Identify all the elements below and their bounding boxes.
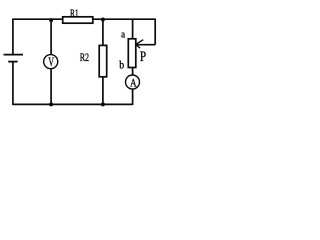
battery B1 short plate [8,61,17,63]
voltmeter V circle [44,55,58,69]
wire top right segment (R1 to top-right corner) [93,18,155,20]
wire bottom [13,103,133,105]
wire R2 to bottom junction [102,77,104,105]
svg-text:b: b [119,60,124,72]
rheostat P box [128,39,136,68]
wire R2 drop (top junction to R2) [102,19,104,45]
wire ammeter to bottom wire [132,90,134,106]
junction dot bottom R2 node [101,102,105,106]
svg-text:P: P [140,49,146,65]
resistor R2 box [99,45,107,76]
wire wiper shaft [136,44,155,46]
wire rheostat top drop [132,19,134,39]
wiper arrowhead lower barb [136,44,140,48]
wire right side vertical (corner to wiper) [154,19,156,45]
junction dot top R2 node [101,18,105,22]
wire voltmeter drop (top junction to voltmeter) [50,19,52,55]
wire left side lower (battery to bottom wire) [12,62,14,105]
wire top left segment [13,18,63,20]
svg-text:R2: R2 [80,52,90,64]
svg-text:R1: R1 [70,6,79,20]
battery B1 long plate [4,54,24,56]
ammeter A circle [126,75,140,89]
junction dot bottom voltmeter node [49,102,53,106]
wire voltmeter to bottom junction [50,69,52,105]
wire left side upper (corner to battery) [12,19,14,55]
wiper arrowhead upper barb [136,40,143,45]
svg-text:a: a [121,30,125,41]
svg-text:A: A [130,76,137,90]
junction dot top voltmeter node [49,18,53,22]
resistor R1 box [63,17,93,23]
svg-text:V: V [48,55,54,69]
wire rheostat to ammeter [132,68,134,76]
